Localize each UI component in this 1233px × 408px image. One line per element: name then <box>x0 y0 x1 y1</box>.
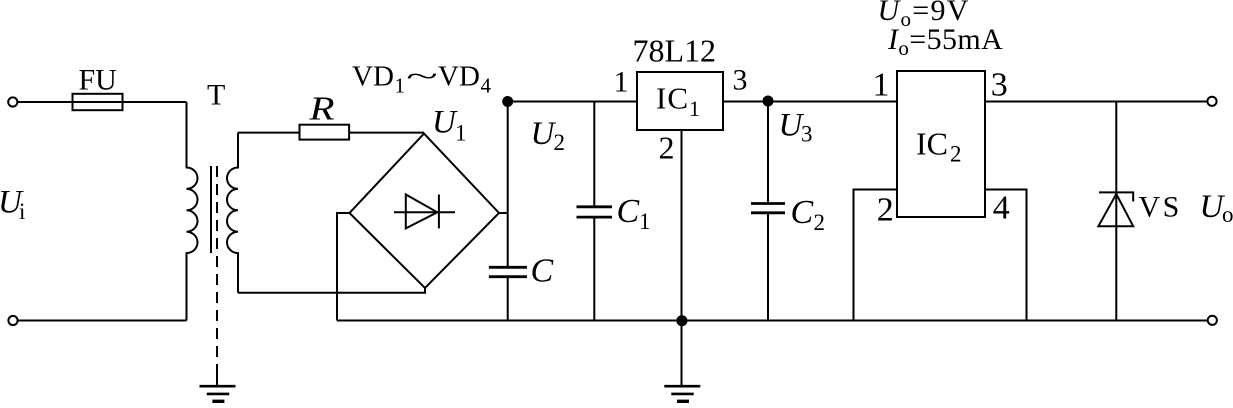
transformer T primary winding <box>187 102 198 321</box>
top rail segment 3 <box>985 101 1207 103</box>
svg-text:4: 4 <box>993 190 1010 227</box>
capacitor C2 wire <box>767 102 769 204</box>
top rail segment 2 <box>723 101 897 103</box>
capacitor C1 <box>577 207 613 217</box>
svg-text:T: T <box>207 79 225 112</box>
svg-text:3: 3 <box>801 122 813 147</box>
svg-text:2: 2 <box>950 142 962 167</box>
wire <box>18 101 187 103</box>
wire <box>18 320 187 322</box>
IC1 pin2 wire <box>681 130 683 386</box>
svg-text:~: ~ <box>406 61 438 93</box>
junction node after IC1 pin3 <box>763 96 774 107</box>
junction node ground rail <box>676 315 687 326</box>
svg-text:1: 1 <box>689 96 700 121</box>
zener diode VS wire <box>1115 102 1117 321</box>
svg-text:i: i <box>19 199 25 224</box>
IC2 pin4 wire <box>985 190 1027 321</box>
svg-text:2: 2 <box>659 129 675 165</box>
svg-text:C: C <box>791 194 814 231</box>
transformer core <box>210 166 212 253</box>
wire bridge right vertex stub <box>499 212 508 214</box>
svg-text:1: 1 <box>873 67 890 104</box>
ground (IC1 pin 2) <box>664 386 700 401</box>
wire bridge left vertex to bottom rail <box>337 213 350 321</box>
top rail segment 1 <box>508 101 637 103</box>
resistor R <box>300 125 350 140</box>
svg-text:1: 1 <box>614 65 629 98</box>
bridge rectifier VD1~VD4 <box>350 134 500 288</box>
output terminal top <box>1207 97 1216 106</box>
input terminal bottom <box>8 316 17 325</box>
svg-text:C: C <box>617 193 640 230</box>
svg-text:1: 1 <box>639 209 651 234</box>
label VD1~VD4 <box>352 61 492 98</box>
zener diode VS symbol <box>1099 192 1133 201</box>
svg-text:o: o <box>1222 202 1233 227</box>
diode symbol inside bridge <box>394 211 455 213</box>
fuse FU <box>73 94 123 110</box>
bottom rail <box>337 320 1208 322</box>
svg-text:C: C <box>531 253 554 290</box>
svg-text:IC: IC <box>916 125 948 161</box>
svg-text:3: 3 <box>733 64 748 97</box>
svg-text:4: 4 <box>481 74 492 98</box>
junction node after bridge <box>502 96 513 107</box>
capacitor C <box>489 267 527 276</box>
ground (transformer shield) <box>200 386 236 401</box>
svg-text:1: 1 <box>395 74 406 98</box>
transformer secondary winding <box>227 133 238 293</box>
svg-text:R: R <box>308 91 334 128</box>
svg-text:VD: VD <box>438 61 480 93</box>
wire R to bridge <box>349 132 424 134</box>
svg-text:2: 2 <box>554 130 566 155</box>
capacitor C1 wire <box>593 102 595 207</box>
svg-text:IC: IC <box>656 81 689 116</box>
IC2 pin2 wire <box>854 190 898 321</box>
svg-text:3: 3 <box>991 67 1008 104</box>
wire DC+ vertical below C <box>507 277 509 321</box>
input terminal top <box>8 97 17 106</box>
wire DC+ vertical above C <box>507 102 509 268</box>
svg-text:FU: FU <box>79 63 118 96</box>
transformer shield (dashed to ground) <box>216 166 218 368</box>
IC1 box <box>637 72 723 130</box>
wire secondary bottom <box>238 288 425 293</box>
svg-text:1: 1 <box>455 120 467 145</box>
wire secondary top <box>238 132 300 134</box>
svg-text:2: 2 <box>814 210 826 235</box>
IC2 box <box>897 71 985 217</box>
output terminal bottom <box>1208 316 1217 325</box>
svg-text:VD: VD <box>352 61 394 93</box>
capacitor C2 <box>751 204 785 213</box>
svg-text:VS: VS <box>1139 191 1182 224</box>
svg-text:2: 2 <box>877 192 894 229</box>
svg-text:78L12: 78L12 <box>633 33 717 69</box>
